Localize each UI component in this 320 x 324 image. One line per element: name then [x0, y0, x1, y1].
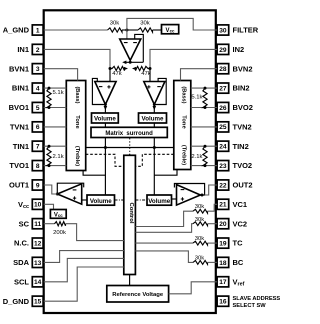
wire tone bus horizontal	[86, 147, 174, 149]
node U1 output dot	[129, 61, 132, 64]
wire U1 output line with arrow	[129, 60, 131, 62]
svg-text:Vcc: Vcc	[54, 212, 63, 218]
svg-text:20: 20	[219, 221, 227, 228]
wire IN1 node to op-amp U2	[109, 69, 111, 82]
svg-text:12: 12	[34, 241, 42, 248]
pin 13 SDA	[32, 257, 43, 267]
op-amp U5 (OUT2, apex right)	[177, 185, 201, 206]
svg-text:Tone: Tone	[74, 115, 80, 129]
wire pin27 BIN2	[191, 87, 217, 89]
svg-text:BVN1: BVN1	[9, 64, 29, 73]
wire Volume1 right to Matrix	[153, 123, 155, 127]
wire pin5 BVO1	[44, 107, 67, 109]
pin 4 BIN1	[32, 83, 43, 93]
wire U5 feedback loop	[174, 184, 204, 196]
svg-text:2.1k: 2.1k	[53, 154, 64, 160]
svg-text:BVN2: BVN2	[233, 64, 253, 73]
svg-text:11: 11	[34, 221, 41, 228]
resistor 30k VC1	[193, 209, 208, 213]
svg-text:28: 28	[219, 66, 227, 73]
wire Control to BC (30k)	[135, 251, 193, 263]
svg-text:BIN1: BIN1	[12, 84, 29, 93]
svg-text:7: 7	[36, 144, 40, 151]
svg-text:47k: 47k	[141, 71, 151, 77]
resistor 30k VC2	[193, 222, 208, 226]
svg-text:A_GND: A_GND	[3, 26, 30, 35]
svg-text:3: 3	[36, 66, 40, 73]
svg-text:18: 18	[219, 260, 227, 267]
svg-text:(Treble): (Treble)	[74, 146, 80, 166]
svg-text:Reference Voltage: Reference Voltage	[112, 292, 164, 298]
resistor 30k TC	[193, 241, 208, 245]
node dot right bus	[153, 146, 156, 149]
node IN2 dot	[149, 67, 152, 70]
wire pin10 Vcc	[44, 204, 54, 209]
pin 12 N.C.	[32, 238, 43, 248]
svg-text:IN1: IN1	[17, 45, 29, 54]
dash-dot control to Volume2 right	[135, 199, 147, 201]
node IN1 dot	[109, 67, 112, 70]
svg-text:22: 22	[219, 182, 227, 189]
resistor 5.1k left	[47, 88, 51, 107]
svg-text:Vcc: Vcc	[166, 28, 175, 34]
block Volume 2 right	[147, 195, 172, 205]
svg-text:30k: 30k	[195, 217, 205, 223]
wire Tone right output	[154, 170, 177, 176]
node U4 output dot	[56, 193, 59, 196]
svg-text:BVO1: BVO1	[9, 103, 29, 112]
pin 29 IN2	[217, 44, 229, 54]
svg-text:(Bass): (Bass)	[74, 86, 80, 103]
pin 11 SC	[32, 219, 43, 229]
pin 14 SCL	[32, 277, 43, 287]
pin 23 TVO2	[217, 161, 229, 171]
resistor 2.1k right	[203, 146, 207, 165]
svg-text:5: 5	[36, 105, 40, 112]
wire pin28 BVN2 to Tone top	[181, 69, 218, 81]
pin 21 VC1	[217, 199, 229, 209]
wire pin24 TIN2	[191, 145, 217, 147]
svg-text:TVO1: TVO1	[9, 161, 29, 170]
svg-text:VC1: VC1	[233, 200, 248, 209]
svg-text:30: 30	[219, 27, 227, 34]
svg-text:13: 13	[34, 260, 42, 267]
node U5 output dot	[201, 194, 204, 197]
svg-text:5.1k: 5.1k	[191, 95, 202, 101]
resistor 30k BC	[193, 261, 208, 265]
wire pin29 IN2	[150, 49, 217, 68]
dotted control line Matrix to Control	[129, 138, 131, 155]
wire Control to VC1 (30k)	[135, 211, 193, 226]
svg-text:SLAVE ADDRESS: SLAVE ADDRESS	[233, 296, 281, 302]
wire pin9 OUT1	[44, 185, 58, 194]
node junction dot	[125, 29, 128, 32]
wire pin15 D_GND to Control	[44, 267, 124, 301]
pin 9 OUT1	[32, 180, 43, 190]
wire node between 30k resistors	[122, 29, 138, 31]
resistor 30k (right)	[138, 28, 153, 32]
pin 8 TVO1	[32, 161, 43, 171]
svg-text:SELECT SW: SELECT SW	[233, 303, 267, 309]
wire 30k to Vcc box	[153, 29, 162, 31]
svg-text:16: 16	[219, 299, 227, 306]
svg-text:BVO2: BVO2	[233, 103, 253, 112]
pin 6 TVN1	[32, 122, 43, 132]
svg-text:IN2: IN2	[233, 45, 245, 54]
wire pin25 TVN2	[191, 126, 217, 128]
pin 30 FILTER	[217, 25, 229, 35]
resistor 2.1k left	[47, 146, 51, 165]
svg-text:Control: Control	[128, 203, 134, 224]
op-amp U4 (OUT1, apex left)	[57, 184, 81, 204]
svg-text:5.1k: 5.1k	[53, 90, 64, 96]
wire U2 output to Volume1 left with arrow	[104, 105, 106, 114]
wire pin2 IN1	[44, 49, 110, 68]
svg-text:21: 21	[219, 202, 227, 209]
svg-text:TC: TC	[233, 239, 244, 248]
resistor 200k	[55, 222, 66, 226]
dash-dot control to Volume2 left	[115, 199, 124, 201]
pin 16 SLAVE ADDRESS SELECT SW	[217, 296, 229, 306]
pin 25 TVN2	[217, 122, 229, 132]
pin 28 BVN2	[217, 64, 229, 74]
wire U3 output to Volume1 right with arrow	[153, 105, 155, 114]
wire U3 feedback loop	[154, 78, 166, 104]
wire Reference Voltage to pin17 Vref	[169, 282, 218, 294]
svg-text:SDA: SDA	[13, 258, 29, 267]
wire pin3 BVN1 to Tone top	[44, 69, 78, 81]
svg-text:(Bass): (Bass)	[180, 86, 186, 103]
svg-text:Volume: Volume	[90, 198, 112, 205]
block Matrix surround	[91, 127, 167, 137]
svg-text:10: 10	[34, 202, 42, 209]
svg-text:30k: 30k	[195, 255, 205, 261]
svg-text:15: 15	[34, 299, 42, 306]
svg-text:Tone: Tone	[180, 115, 186, 129]
svg-text:23: 23	[219, 163, 227, 170]
svg-text:200k: 200k	[53, 230, 66, 236]
pin 24 TIN2	[217, 141, 229, 151]
svg-text:25: 25	[219, 124, 227, 131]
pin 15 D_GND	[32, 296, 43, 306]
svg-text:24: 24	[219, 144, 227, 151]
wire pin13 SDA to Control	[44, 251, 124, 263]
resistor 47k (right) with arrow	[136, 66, 151, 70]
wire IN2 node to op-amp U3	[149, 69, 151, 82]
pin 26 BVO2	[217, 102, 229, 112]
wire pin14 SCL to Control	[44, 258, 124, 281]
wire 200k to Control	[66, 224, 124, 241]
Vcc supply box (top)	[162, 25, 179, 34]
svg-text:D_GND: D_GND	[3, 297, 30, 306]
dashed control line Tone right to Control	[135, 154, 173, 166]
wire Matrix to right tone bus	[153, 138, 155, 196]
wire node down to op-amp U1 input	[126, 30, 128, 39]
pin 20 VC2	[217, 219, 229, 229]
block Tone left (Bass/Treble)	[66, 81, 85, 171]
svg-text:6: 6	[36, 124, 40, 131]
svg-text:OUT1: OUT1	[9, 181, 29, 190]
svg-text:Volume: Volume	[148, 198, 170, 205]
svg-text:SC: SC	[19, 219, 30, 228]
resistor 30k (left)	[108, 28, 123, 32]
wire pin1 A_GND to bias divider	[44, 29, 108, 31]
svg-text:N.C.: N.C.	[14, 239, 29, 248]
svg-text:47k: 47k	[112, 71, 122, 77]
op-amp U1 (filter, apex down)	[120, 39, 141, 60]
wire pin7 TIN1	[44, 145, 67, 147]
op-amp U2 (left channel input)	[95, 82, 116, 105]
svg-text:27: 27	[219, 86, 227, 93]
svg-text:30k: 30k	[195, 236, 205, 242]
svg-text:14: 14	[34, 279, 42, 286]
svg-text:TIN2: TIN2	[233, 142, 249, 151]
svg-text:TVO2: TVO2	[233, 161, 253, 170]
block Volume 2 left	[87, 195, 115, 205]
resistor 5.1k right	[203, 88, 207, 107]
dashed control line Tone left to Control	[86, 154, 124, 166]
wire U1 feedback loop	[135, 34, 144, 62]
pin 7 TIN1	[32, 141, 43, 151]
wire pin26 BVO2	[191, 107, 217, 109]
node U2 output dot	[104, 103, 107, 106]
block Volume 1 left	[92, 113, 119, 123]
svg-text:30k: 30k	[110, 20, 120, 26]
svg-text:TVN1: TVN1	[10, 123, 29, 132]
pin 3 BVN1	[32, 64, 43, 74]
wire Matrix to left tone bus	[104, 138, 106, 196]
wire Control to VC2 (30k)	[135, 224, 193, 233]
wire pin4 BIN1	[44, 87, 67, 89]
svg-text:17: 17	[219, 279, 227, 286]
svg-text:Volume: Volume	[94, 116, 116, 123]
wire pin6 TVN1	[44, 126, 67, 128]
svg-text:1: 1	[36, 27, 40, 34]
svg-text:29: 29	[219, 47, 227, 54]
svg-text:30k: 30k	[140, 20, 150, 26]
wire Tone left output	[83, 171, 105, 176]
pin 2 IN1	[32, 44, 43, 54]
wire Volume2 left to U4 + input	[82, 199, 87, 201]
svg-text:26: 26	[219, 105, 227, 112]
node U3 output dot	[153, 103, 156, 106]
pin 10 Vcc	[32, 199, 43, 209]
block Volume 1 right	[139, 113, 167, 123]
svg-text:VC2: VC2	[233, 219, 248, 228]
svg-text:8: 8	[36, 163, 40, 170]
block Control	[124, 155, 136, 274]
svg-text:TVN2: TVN2	[233, 123, 252, 132]
op-amp U3 (right channel input)	[144, 82, 165, 105]
svg-text:19: 19	[219, 241, 227, 248]
svg-text:30k: 30k	[195, 204, 205, 210]
Vcc supply box (left)	[50, 210, 66, 219]
IC body outline	[44, 10, 216, 313]
svg-text:BIN2: BIN2	[233, 84, 250, 93]
svg-text:2.1k: 2.1k	[191, 154, 202, 160]
block Reference Voltage	[107, 286, 169, 303]
pin 17 Vref	[217, 277, 229, 287]
wire pin22 OUT2	[205, 185, 218, 195]
svg-text:TIN1: TIN1	[13, 142, 29, 151]
wire node to FILTER pin 30	[127, 18, 217, 30]
wire pin11 SC	[44, 223, 55, 225]
node dot left bus	[104, 146, 107, 149]
pin 5 BVO1	[32, 102, 43, 112]
pin 22 OUT2	[217, 180, 229, 190]
wire Volume2 right to U5 + input	[172, 198, 177, 200]
wire pin23 TVO2	[191, 165, 217, 167]
pin 1 A_GND	[32, 25, 43, 35]
wire Control to Reference Voltage	[129, 275, 131, 286]
svg-text:BC: BC	[233, 258, 244, 267]
svg-text:Volume: Volume	[142, 116, 164, 123]
svg-text:9: 9	[36, 182, 40, 189]
svg-text:SCL: SCL	[14, 277, 29, 286]
pin 27 BIN2	[217, 83, 229, 93]
svg-text:FILTER: FILTER	[233, 26, 259, 35]
svg-text:4: 4	[36, 86, 40, 93]
svg-text:2: 2	[36, 47, 40, 54]
svg-text:Matrix surround: Matrix surround	[105, 131, 153, 137]
pin 19 TC	[217, 238, 229, 248]
pin 18 BC	[217, 257, 229, 267]
resistor 47k (left) with arrow	[110, 66, 125, 70]
wire pin8 TVO1	[44, 165, 67, 167]
wire Volume1 left to Matrix	[104, 123, 106, 127]
wire Control to TC (30k)	[135, 242, 193, 244]
svg-text:OUT2: OUT2	[233, 181, 253, 190]
wire U2 feedback loop	[92, 78, 105, 104]
svg-text:(Treble): (Treble)	[180, 145, 186, 165]
block Tone right (Bass/Treble)	[174, 81, 191, 170]
wire U4 feedback loop	[57, 183, 83, 194]
